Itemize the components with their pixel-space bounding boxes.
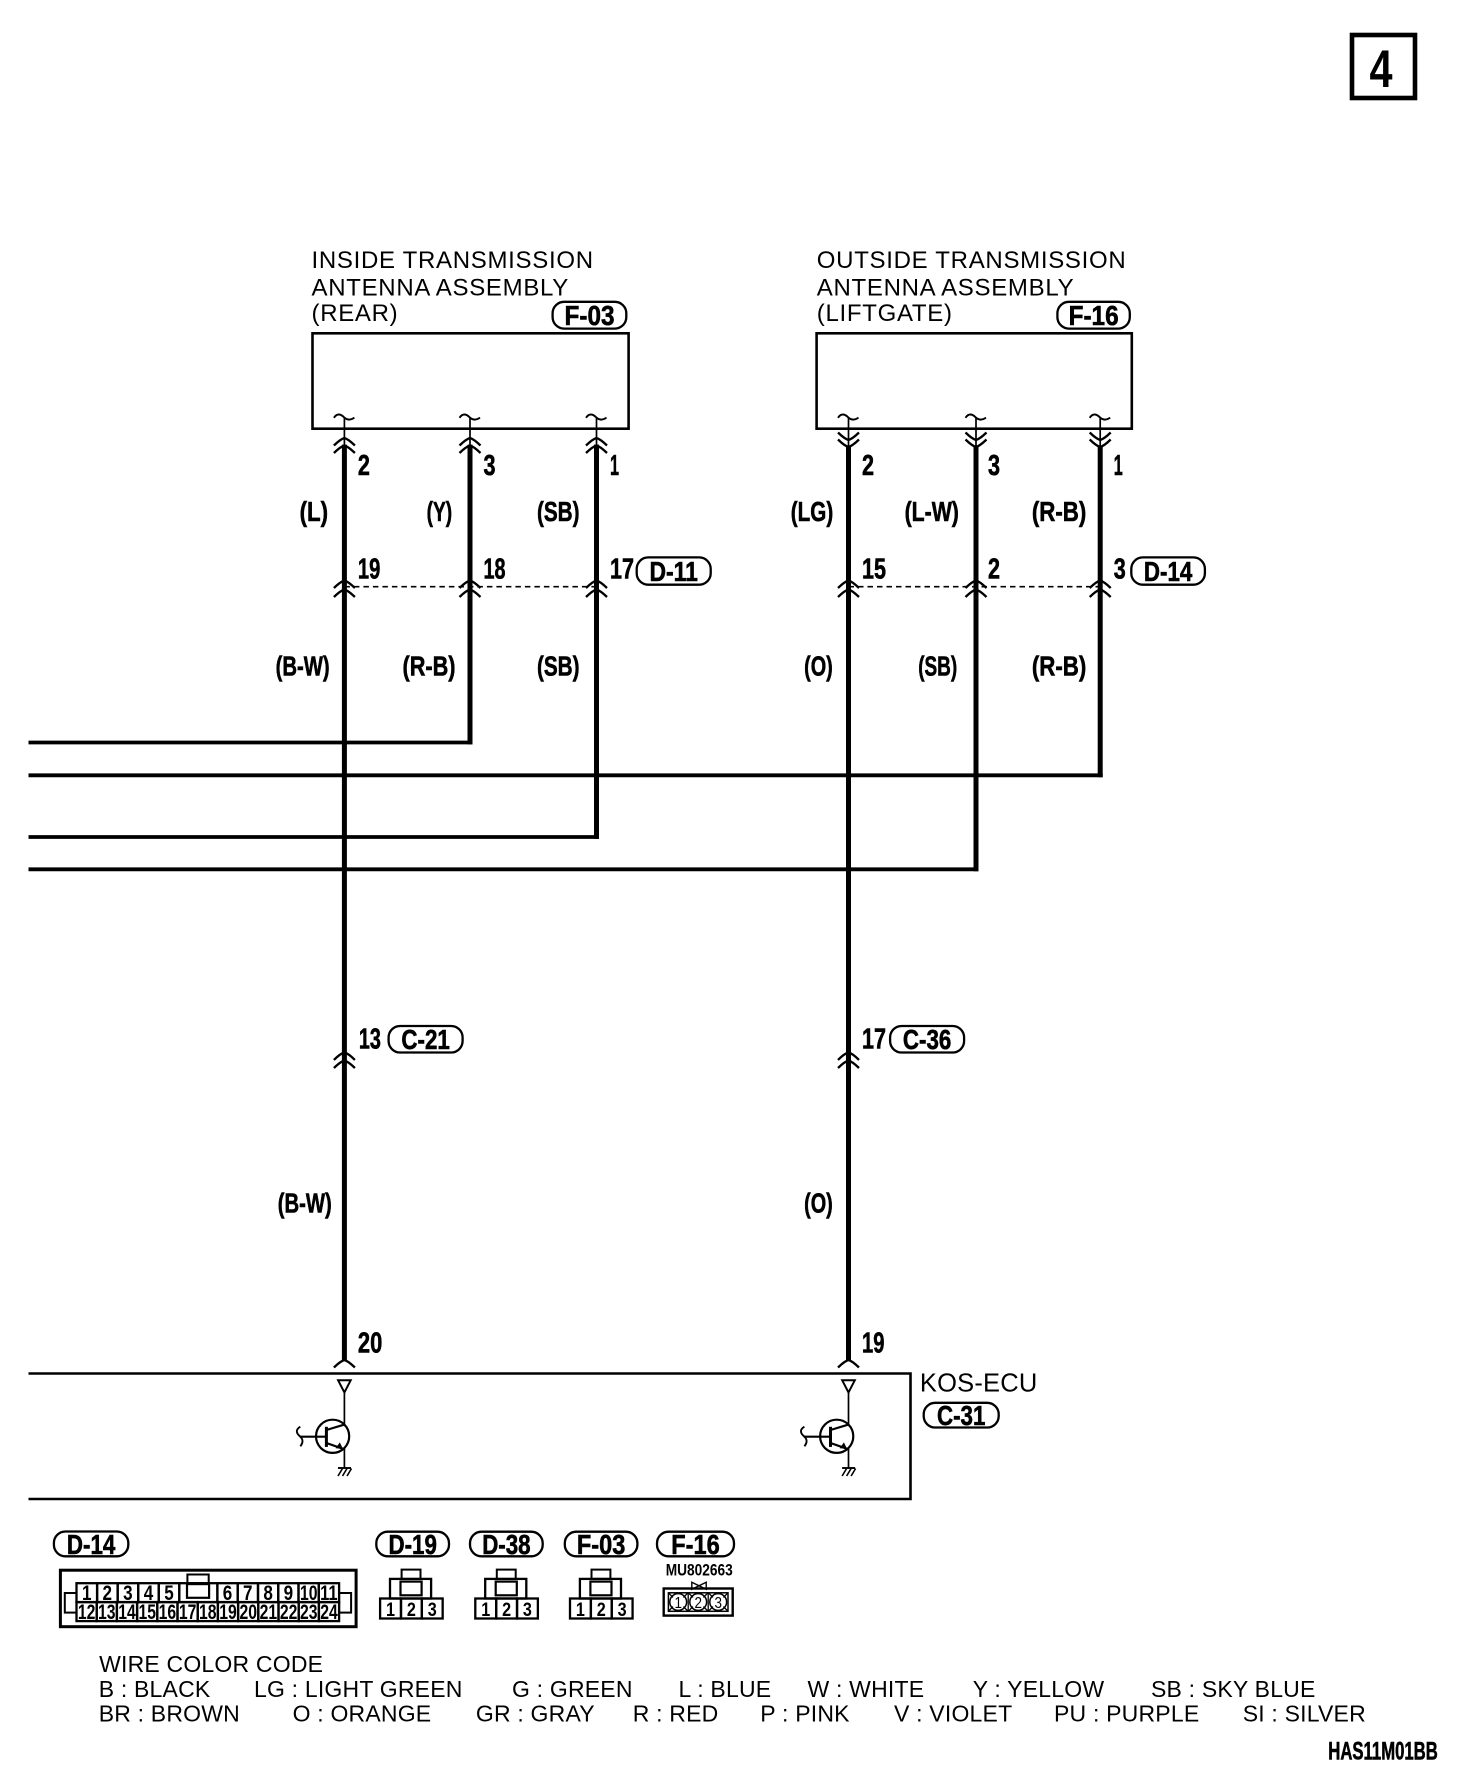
- wire: F-16 pin 3 (L-W)/(SB), corners left at y=869.3: [974, 447, 979, 871]
- wire color code legend: [99, 1651, 1366, 1727]
- in-line connector D-14 dashed line: [849, 586, 1101, 588]
- wire segment: horizontal run y=837: [29, 835, 600, 839]
- svg-text:17: 17: [862, 1024, 886, 1056]
- svg-text:F-16: F-16: [1069, 300, 1119, 331]
- svg-text:(O): (O): [804, 1188, 833, 1219]
- transistor Q1 (NPN) in KOS-ECU: [297, 1420, 349, 1468]
- svg-text:INSIDE TRANSMISSION: INSIDE TRANSMISSION: [312, 247, 594, 274]
- svg-text:3: 3: [1114, 554, 1126, 586]
- connector label D-38 (bottom): [470, 1529, 543, 1560]
- svg-text:1: 1: [386, 1599, 395, 1621]
- outside transmission antenna assembly (liftgate) box: [817, 333, 1132, 428]
- svg-text:20: 20: [239, 1600, 257, 1624]
- svg-text:O : ORANGE: O : ORANGE: [293, 1701, 432, 1727]
- double chevron (up) at in-line connector, wire x=976: [966, 581, 987, 598]
- svg-text:R : RED: R : RED: [633, 1701, 719, 1727]
- in-line connector D-11 dashed line: [344, 586, 596, 588]
- connector label C-36: [890, 1024, 964, 1055]
- svg-text:19: 19: [219, 1600, 237, 1624]
- connector D-38 face (3-pin): [475, 1570, 538, 1621]
- antenna terminal squiggle at F-03 pin 1: [586, 415, 607, 430]
- svg-text:3: 3: [988, 450, 1000, 482]
- antenna terminal squiggle at F-16 pin 2: [838, 415, 859, 430]
- svg-text:C-21: C-21: [401, 1024, 449, 1055]
- single chevron (up) at KOS-ECU pin 19: [838, 1360, 859, 1368]
- wire: F-16 pin 2 (LG)/(O) vertical to KOS-ECU pin 19: [846, 447, 851, 1360]
- double chevron (up) below F-03 at wire x=470: [460, 430, 481, 454]
- svg-text:21: 21: [260, 1600, 278, 1624]
- svg-text:2: 2: [502, 1599, 511, 1621]
- svg-text:(SB): (SB): [918, 651, 957, 682]
- double chevron (up) at in-line connector, wire x=470: [460, 581, 481, 598]
- svg-text:24: 24: [320, 1600, 338, 1624]
- svg-text:15: 15: [862, 554, 886, 586]
- svg-text:C-31: C-31: [937, 1400, 985, 1431]
- svg-text:WIRE COLOR CODE: WIRE COLOR CODE: [99, 1651, 323, 1677]
- svg-text:G : GREEN: G : GREEN: [512, 1676, 633, 1702]
- svg-text:ANTENNA ASSEMBLY: ANTENNA ASSEMBLY: [312, 274, 570, 301]
- svg-text:SB : SKY BLUE: SB : SKY BLUE: [1151, 1676, 1316, 1702]
- pin triangle at KOS-ECU wire x=344: [338, 1380, 351, 1424]
- double chevron (down) below F-16 at wire x=976: [966, 430, 987, 448]
- svg-text:17: 17: [179, 1600, 197, 1624]
- inside transmission antenna assembly (rear) box: [313, 333, 629, 428]
- svg-text:D-11: D-11: [650, 556, 698, 587]
- svg-text:ANTENNA ASSEMBLY: ANTENNA ASSEMBLY: [817, 274, 1075, 301]
- svg-text:2: 2: [988, 554, 1000, 586]
- connector F-03 face (3-pin): [570, 1570, 633, 1621]
- double chevron (up) at C-36 on wire x=848: [838, 1052, 859, 1068]
- antenna terminal squiggle at F-03 pin 3: [460, 415, 481, 430]
- connector label C-21: [389, 1024, 463, 1055]
- connector label F-16 (bottom): [657, 1529, 734, 1560]
- wire: F-03 pin 3 (Y)/(R-B), corners left at y=742.5: [468, 445, 473, 745]
- wire segment: horizontal run y=775.3: [29, 773, 1103, 777]
- svg-text:18: 18: [484, 554, 506, 586]
- svg-text:14: 14: [118, 1600, 136, 1624]
- svg-text:1: 1: [674, 1595, 682, 1612]
- svg-text:(Y): (Y): [427, 496, 453, 527]
- double chevron (down) below F-16 at wire x=1100: [1090, 430, 1111, 448]
- double chevron (up) at in-line connector, wire x=848: [838, 581, 859, 598]
- double chevron (up) at in-line connector, wire x=1100: [1090, 581, 1111, 598]
- svg-text:(L): (L): [300, 496, 329, 527]
- double chevron (up) at C-21 on wire x=344: [334, 1052, 355, 1068]
- svg-text:1: 1: [1114, 450, 1123, 482]
- svg-text:LG : LIGHT GREEN: LG : LIGHT GREEN: [254, 1676, 463, 1702]
- svg-text:(LG): (LG): [791, 496, 833, 527]
- svg-text:19: 19: [862, 1328, 884, 1360]
- label: OUTSIDE TRANSMISSION ANTENNA ASSEMBLY (LIFTGATE): [817, 247, 1127, 327]
- transistor Q2 (NPN) in KOS-ECU: [801, 1420, 853, 1468]
- svg-text:2: 2: [358, 450, 370, 482]
- svg-text:20: 20: [358, 1328, 382, 1360]
- svg-text:OUTSIDE TRANSMISSION: OUTSIDE TRANSMISSION: [817, 247, 1127, 274]
- connector label F-16: [1057, 300, 1129, 331]
- double chevron (up) at in-line connector, wire x=596: [586, 581, 607, 598]
- connector label F-03 (bottom): [565, 1529, 638, 1560]
- svg-text:F-03: F-03: [577, 1529, 625, 1560]
- svg-text:V : VIOLET: V : VIOLET: [894, 1701, 1012, 1727]
- svg-text:4: 4: [1370, 40, 1393, 99]
- svg-text:D-38: D-38: [482, 1529, 530, 1560]
- wire segment: horizontal run y=869.3: [29, 867, 979, 871]
- label: INSIDE TRANSMISSION ANTENNA ASSEMBLY (REAR): [312, 247, 594, 327]
- svg-text:PU : PURPLE: PU : PURPLE: [1054, 1701, 1199, 1727]
- single chevron (up) at KOS-ECU pin 20: [334, 1360, 355, 1368]
- svg-text:2: 2: [597, 1599, 606, 1621]
- svg-text:P : PINK: P : PINK: [760, 1701, 850, 1727]
- svg-text:(LIFTGATE): (LIFTGATE): [817, 300, 953, 327]
- double chevron (down) below F-16 at wire x=848: [838, 430, 859, 448]
- svg-text:17: 17: [610, 554, 634, 586]
- wire segment: horizontal run y=742.5: [29, 741, 473, 745]
- svg-text:GR : GRAY: GR : GRAY: [476, 1701, 595, 1727]
- wire: F-16 pin 1 (R-B), corners left at y=775.3: [1098, 447, 1103, 777]
- svg-text:(SB): (SB): [537, 496, 580, 527]
- connector label C-31: [924, 1400, 999, 1431]
- wire: F-03 pin 2 (L)/(B-W) vertical to KOS-ECU pin 20: [342, 445, 347, 1360]
- svg-text:F-03: F-03: [565, 300, 615, 331]
- svg-text:2: 2: [694, 1595, 702, 1612]
- svg-text:W : WHITE: W : WHITE: [808, 1676, 925, 1702]
- svg-text:15: 15: [138, 1600, 156, 1624]
- svg-text:(REAR): (REAR): [312, 300, 399, 327]
- svg-text:19: 19: [358, 554, 380, 586]
- svg-text:1: 1: [610, 450, 619, 482]
- svg-text:22: 22: [280, 1600, 298, 1624]
- svg-text:1: 1: [576, 1599, 585, 1621]
- connector label D-14 (bottom): [54, 1529, 128, 1560]
- svg-text:(SB): (SB): [537, 651, 580, 682]
- svg-text:18: 18: [199, 1600, 217, 1624]
- svg-text:23: 23: [300, 1600, 318, 1624]
- svg-text:D-14: D-14: [67, 1529, 116, 1560]
- antenna terminal squiggle at F-16 pin 1: [1090, 415, 1111, 430]
- svg-text:3: 3: [523, 1599, 532, 1621]
- page number 4 box: [1352, 35, 1415, 99]
- svg-text:F-16: F-16: [671, 1529, 719, 1560]
- pin triangle at KOS-ECU wire x=848: [842, 1380, 855, 1424]
- svg-text:L : BLUE: L : BLUE: [679, 1676, 772, 1702]
- connector label D-19 (bottom): [376, 1529, 449, 1560]
- svg-text:(R-B): (R-B): [1032, 496, 1086, 527]
- svg-text:D-19: D-19: [389, 1529, 437, 1560]
- double chevron (up) below F-03 at wire x=344: [334, 430, 355, 454]
- svg-text:2: 2: [407, 1599, 416, 1621]
- svg-text:3: 3: [714, 1595, 722, 1612]
- svg-text:3: 3: [484, 450, 496, 482]
- svg-text:3: 3: [428, 1599, 437, 1621]
- svg-text:3: 3: [618, 1599, 627, 1621]
- connector label D-11: [637, 556, 711, 587]
- antenna terminal squiggle at F-03 pin 2: [334, 415, 355, 430]
- svg-text:13: 13: [98, 1600, 116, 1624]
- svg-text:HAS11M01BB: HAS11M01BB: [1328, 1737, 1438, 1765]
- connector D-14 face (24-pin): [60, 1570, 356, 1627]
- svg-text:16: 16: [159, 1600, 177, 1624]
- svg-text:SI : SILVER: SI : SILVER: [1243, 1701, 1366, 1727]
- connector D-19 face (3-pin): [380, 1570, 443, 1621]
- svg-text:B : BLACK: B : BLACK: [99, 1676, 211, 1702]
- svg-text:(R-B): (R-B): [1032, 651, 1086, 682]
- connector label F-03: [553, 300, 627, 331]
- svg-text:1: 1: [481, 1599, 490, 1621]
- svg-text:(O): (O): [804, 651, 833, 682]
- connector label D-14: [1131, 556, 1205, 587]
- wire: F-03 pin 1 (SB), corners left at y=837: [594, 445, 599, 839]
- antenna terminal squiggle at F-16 pin 3: [966, 415, 987, 430]
- svg-text:BR : BROWN: BR : BROWN: [99, 1701, 240, 1727]
- svg-text:D-14: D-14: [1144, 556, 1193, 587]
- svg-text:KOS-ECU: KOS-ECU: [920, 1369, 1038, 1397]
- svg-text:C-36: C-36: [903, 1024, 951, 1055]
- ground (chassis) below Q1: [338, 1468, 352, 1476]
- svg-text:(L-W): (L-W): [905, 496, 959, 527]
- connector F-16 face (3-pin sealed), part no MU802663: [664, 1561, 733, 1616]
- ground (chassis) below Q2: [842, 1468, 856, 1476]
- svg-text:(B-W): (B-W): [278, 1188, 332, 1219]
- svg-text:Y : YELLOW: Y : YELLOW: [973, 1676, 1105, 1702]
- KOS-ECU box (C-31), open on left: [29, 1374, 911, 1500]
- svg-text:(R-B): (R-B): [403, 651, 456, 682]
- svg-text:MU802663: MU802663: [666, 1561, 733, 1580]
- svg-text:(B-W): (B-W): [276, 651, 330, 682]
- svg-text:12: 12: [78, 1600, 96, 1624]
- svg-text:13: 13: [359, 1024, 381, 1056]
- double chevron (up) at in-line connector, wire x=344: [334, 581, 355, 598]
- double chevron (up) below F-03 at wire x=596: [586, 430, 607, 454]
- svg-text:2: 2: [862, 450, 874, 482]
